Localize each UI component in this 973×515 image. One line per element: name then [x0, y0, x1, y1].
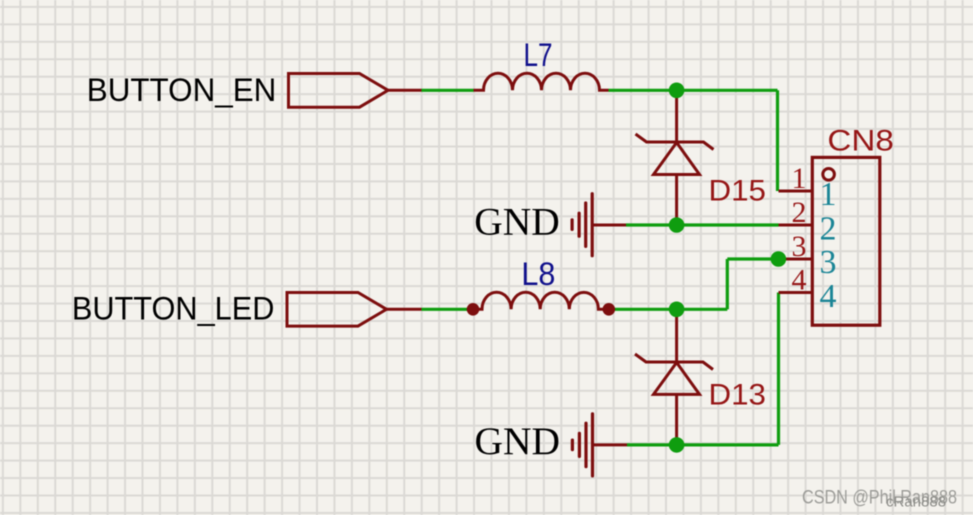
inductor L7: [474, 37, 609, 90]
svg-text:GND: GND: [474, 200, 560, 243]
wire: [609, 308, 728, 311]
pin 1: [779, 190, 813, 193]
svg-text:L8: L8: [521, 256, 555, 292]
diode D15: [636, 90, 767, 225]
svg-text:3: 3: [820, 244, 837, 281]
svg-text:2: 2: [820, 211, 837, 248]
port BUTTON_EN: [87, 72, 388, 108]
wire: [422, 308, 468, 311]
ground (top GND symbol): [572, 194, 626, 256]
ground (bottom GND symbol): [572, 414, 627, 476]
wire: [726, 259, 729, 309]
svg-text:GND: GND: [475, 420, 561, 463]
wire: [609, 89, 778, 92]
svg-text:L7: L7: [524, 37, 553, 73]
terminal dot (L8 left): [467, 303, 480, 316]
diode D13: [635, 309, 766, 445]
wire: [627, 443, 779, 446]
junction (D13 anode to GND wire): [669, 437, 685, 453]
port BUTTON_LED: [72, 290, 387, 326]
wire: [388, 89, 422, 92]
svg-text:1: 1: [792, 162, 807, 195]
junction (D15 anode to GND wire): [669, 217, 685, 233]
terminal dot (L8 right): [603, 303, 616, 316]
svg-text:CN8: CN8: [827, 125, 894, 158]
inductor L8: [473, 256, 609, 309]
wire: [422, 89, 474, 92]
pin 2: [779, 224, 813, 227]
svg-text:1: 1: [820, 176, 837, 213]
svg-text:cRan888: cRan888: [886, 494, 946, 511]
svg-text:4: 4: [820, 278, 837, 315]
wire: [727, 257, 778, 260]
junction A: [669, 83, 685, 99]
junction B: [669, 302, 685, 318]
svg-text:3: 3: [792, 230, 807, 263]
svg-text:BUTTON_LED: BUTTON_LED: [72, 290, 275, 326]
pin 3: [779, 258, 813, 261]
svg-text:BUTTON_EN: BUTTON_EN: [87, 72, 276, 108]
svg-text:2: 2: [792, 196, 807, 229]
wire: [776, 90, 779, 191]
svg-text:D15: D15: [709, 175, 767, 208]
svg-text:4: 4: [792, 264, 807, 297]
pin 4: [779, 291, 813, 294]
wire: [626, 223, 779, 226]
svg-text:D13: D13: [709, 379, 767, 412]
wire: [387, 308, 422, 311]
connector CN8: [812, 125, 894, 326]
junction (pin 3): [771, 251, 787, 267]
wire: [777, 293, 780, 445]
